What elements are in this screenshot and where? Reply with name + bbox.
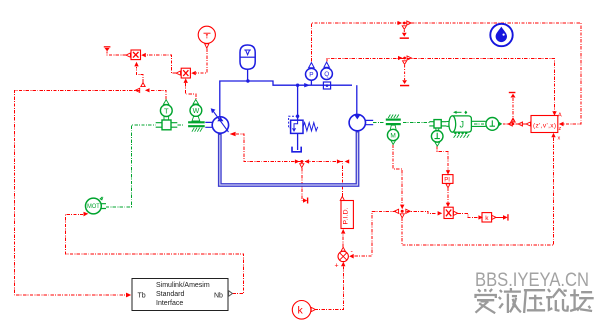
svg-text:BBS.IYEYA.CN: BBS.IYEYA.CN: [475, 269, 589, 291]
svg-text:T: T: [164, 106, 169, 115]
svg-text:MOT: MOT: [87, 203, 100, 210]
svg-text:M: M: [390, 133, 395, 140]
svg-text:Interface: Interface: [156, 300, 183, 307]
svg-text:P.I.D.: P.I.D.: [343, 207, 350, 224]
svg-text:+: +: [335, 263, 339, 270]
svg-text:Standard: Standard: [156, 291, 185, 298]
svg-text:(z',v',x): (z',v',x): [533, 123, 556, 130]
svg-text:J: J: [459, 119, 464, 129]
svg-text:Tb: Tb: [138, 293, 146, 300]
svg-text:z: z: [559, 126, 562, 132]
svg-text:Nb: Nb: [214, 293, 223, 300]
svg-text:P: P: [309, 72, 313, 79]
svg-text:k: k: [298, 305, 304, 317]
svg-text:x: x: [558, 136, 561, 142]
svg-text:Simulink/Amesim: Simulink/Amesim: [156, 282, 210, 289]
svg-text:PI: PI: [444, 178, 450, 184]
svg-text:k: k: [485, 215, 489, 222]
svg-text:W: W: [193, 108, 200, 115]
svg-text:Q: Q: [324, 71, 329, 78]
svg-text:A: A: [558, 113, 562, 119]
